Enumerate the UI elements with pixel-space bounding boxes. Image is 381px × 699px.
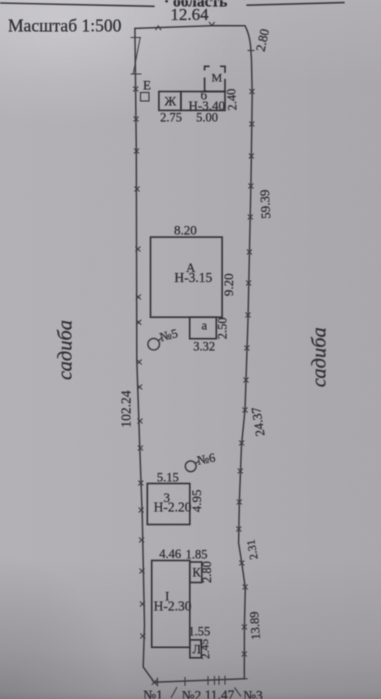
svg-text:13.89: 13.89 bbox=[247, 611, 263, 640]
svg-text:5.00: 5.00 bbox=[196, 111, 218, 125]
svg-text:№3: №3 bbox=[243, 688, 263, 699]
svg-text:9.20: 9.20 bbox=[221, 273, 236, 296]
svg-text:а: а bbox=[202, 319, 208, 333]
svg-text:5.15: 5.15 bbox=[157, 471, 179, 485]
svg-text:3.32: 3.32 bbox=[193, 340, 215, 354]
svg-text:Е: Е bbox=[143, 78, 151, 93]
svg-text:Масштаб 1:500: Масштаб 1:500 bbox=[8, 16, 122, 36]
svg-text:Н-3.15: Н-3.15 bbox=[174, 270, 212, 285]
svg-text:№1: №1 bbox=[143, 688, 163, 699]
svg-text:1.85: 1.85 bbox=[186, 548, 208, 562]
svg-text:№2: №2 bbox=[182, 688, 202, 699]
svg-text:2.40: 2.40 bbox=[224, 88, 239, 111]
svg-text:1.55: 1.55 bbox=[188, 625, 210, 639]
svg-text:8.20: 8.20 bbox=[174, 223, 197, 238]
svg-text:4.46: 4.46 bbox=[159, 547, 181, 561]
svg-text:11.47: 11.47 bbox=[205, 688, 235, 699]
svg-text:Н-2.20: Н-2.20 bbox=[154, 500, 192, 515]
svg-text:102.24: 102.24 bbox=[119, 390, 134, 427]
svg-text:М: М bbox=[212, 71, 223, 85]
svg-text:4.95: 4.95 bbox=[189, 490, 204, 513]
svg-text:Ж: Ж bbox=[165, 94, 177, 109]
svg-text:садиба: садиба bbox=[55, 320, 77, 380]
svg-text:59.39: 59.39 bbox=[257, 189, 274, 219]
svg-text:Н-2.30: Н-2.30 bbox=[154, 599, 192, 614]
svg-text:2.50: 2.50 bbox=[216, 317, 230, 339]
svg-text:2.75: 2.75 bbox=[160, 111, 182, 125]
svg-text:12.64: 12.64 bbox=[170, 5, 209, 24]
svg-text:2.80: 2.80 bbox=[200, 561, 214, 583]
svg-text:садиба: садиба bbox=[308, 327, 330, 387]
svg-text:2.45: 2.45 bbox=[199, 638, 213, 659]
